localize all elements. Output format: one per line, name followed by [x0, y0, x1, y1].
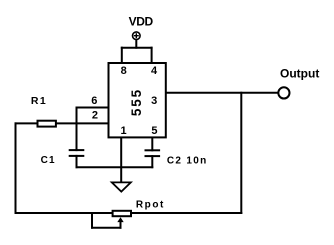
VDD supply symbol circle — [133, 32, 141, 40]
svg-text:555: 555 — [129, 88, 144, 116]
potentiometer wiper arrowhead — [117, 217, 123, 222]
svg-text:1: 1 — [121, 125, 127, 137]
svg-text:C1: C1 — [41, 155, 56, 166]
wire left vertical — [15, 123, 17, 213]
svg-text:2: 2 — [92, 109, 98, 121]
svg-text:5: 5 — [151, 125, 157, 137]
svg-text:3: 3 — [151, 95, 157, 107]
svg-text:4: 4 — [151, 65, 158, 77]
svg-text:8: 8 — [121, 65, 127, 77]
wire R1 to pin 2 — [56, 122, 108, 124]
wire pot wiper vertical — [120, 221, 122, 228]
pin 6 stub wire — [77, 107, 109, 109]
wire pot wiper detour down — [91, 213, 93, 228]
wire bottom horizontal — [16, 212, 242, 214]
capacitor C2 plates — [145, 150, 161, 156]
svg-text:Rpot: Rpot — [136, 199, 165, 210]
wire VDD rail horizontal — [122, 47, 152, 49]
svg-text:6: 6 — [91, 95, 97, 107]
output terminal circle — [278, 87, 289, 98]
VDD supply plus sign — [134, 33, 139, 38]
potentiometer Rpot body — [113, 211, 131, 216]
resistor R1 body — [38, 121, 56, 127]
ground symbol — [112, 182, 131, 191]
wire pin 3 to output — [166, 92, 278, 94]
wire C2 top stub — [151, 138, 153, 151]
wire VDD stub — [135, 40, 137, 48]
svg-text:Output: Output — [280, 66, 319, 80]
wire pot wiper detour horizontal — [92, 227, 121, 229]
svg-text:VDD: VDD — [129, 15, 154, 29]
wire pin 1 to ground — [120, 138, 122, 183]
wire C2 bottom stub — [151, 156, 153, 167]
wire left corner to R1 — [16, 122, 38, 124]
svg-text:C2 10n: C2 10n — [167, 155, 208, 166]
IC U1 555 body — [109, 63, 166, 137]
wire tie pin6 to pin2 node — [76, 108, 78, 124]
svg-text:R1: R1 — [31, 95, 47, 107]
wire C1 bottom stub — [76, 156, 78, 167]
wire cap bottom rail — [77, 166, 153, 168]
wire rail to pin 4 — [151, 48, 153, 63]
wire output junction vertical — [240, 93, 242, 213]
wire rail to pin 8 — [121, 48, 123, 63]
wire C1 top stub — [76, 123, 78, 150]
capacitor C1 plates — [69, 150, 85, 156]
